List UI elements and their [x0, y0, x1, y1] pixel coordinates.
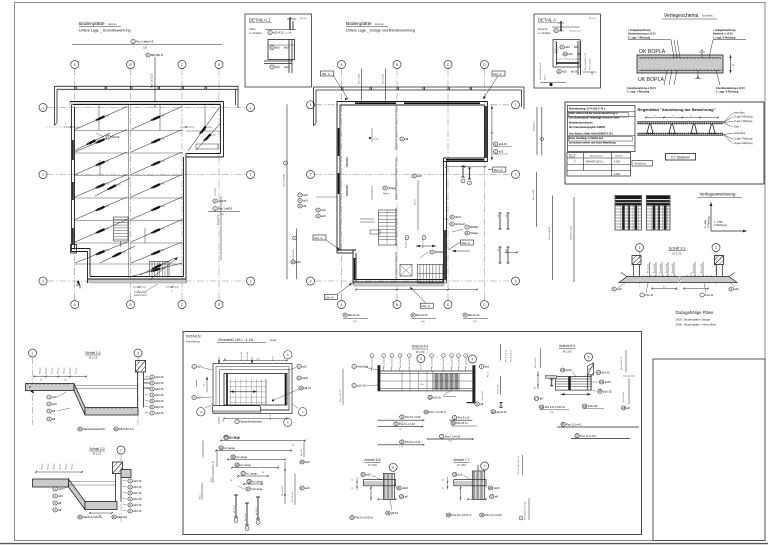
svg-text:Pos.6 ø10: Pos.6 ø10 — [293, 249, 295, 260]
Ansicht 4-4 circles — [417, 355, 425, 363]
Regeldetail schedule table — [567, 153, 631, 177]
svg-text:2ø10: 2ø10 — [302, 376, 308, 380]
detail A top element — [560, 21, 562, 31]
svg-text:untere Bew.: untere Bew. — [734, 132, 746, 135]
detail A corner hatch — [555, 41, 557, 42]
svg-text:ø8-15: ø8-15 — [571, 72, 578, 74]
svg-text:ø8-15 St.: ø8-15 St. — [255, 507, 258, 515]
detail A inner box — [553, 40, 580, 68]
svg-text:Vertiefung: Vertiefung — [186, 340, 200, 344]
Schnitt 1-1 lower slab — [85, 408, 138, 416]
svg-text:ø10: ø10 — [321, 208, 326, 212]
svg-text:ø10: ø10 — [562, 70, 567, 74]
Schnitt 3-3 left column hatched — [632, 256, 641, 265]
svg-text:Pos.8 L=4.30: Pos.8 L=4.30 — [405, 440, 421, 444]
svg-text:1: 1 — [250, 106, 252, 110]
svg-text:M 1:10: M 1:10 — [300, 18, 307, 20]
svg-text:ø10-15: ø10-15 — [133, 509, 142, 513]
left plan band leader label — [154, 57, 156, 108]
Schnitt 2-2 wall hatched — [113, 462, 123, 474]
svg-text:R188A: R188A — [470, 225, 478, 229]
svg-text:ø12/15: ø12/15 — [159, 116, 166, 118]
svg-text:Untere Lage _ Grundbewehrung: Untere Lage _ Grundbewehrung — [79, 29, 131, 33]
svg-text:ø12/15: ø12/15 — [159, 183, 166, 185]
svg-text:ø10-15: ø10-15 — [155, 387, 164, 391]
left plan stair mid-left — [114, 217, 129, 247]
Ansicht 7-7 top column stub — [477, 465, 479, 471]
middle plan top foundation band — [314, 86, 525, 88]
svg-text:1. Lage, X-Richtung: 1. Lage, X-Richtung — [716, 91, 739, 94]
svg-text:Pos.2 ø10/15: Pos.2 ø10/15 — [151, 73, 154, 88]
Ansicht 7-7 bottom dim — [468, 498, 486, 500]
svg-text:Pos.7 L=4.30: Pos.7 L=4.30 — [445, 434, 461, 438]
Schnitt 3-3 bottom labels — [612, 287, 622, 291]
svg-text:Pos.2 2ø10: Pos.2 2ø10 — [443, 357, 445, 368]
svg-text:4x: 4x — [99, 515, 101, 517]
svg-text:ø12: ø12 — [559, 29, 564, 33]
svg-text:Pos.5 L=4.30: Pos.5 L=4.30 — [405, 415, 421, 419]
svg-text:Randeinf. ø 10-15: Randeinf. ø 10-15 — [713, 33, 733, 36]
svg-text:2: 2 — [391, 355, 392, 357]
detail A.1 leader line — [265, 29, 296, 31]
svg-text:8ø10: 8ø10 — [284, 47, 290, 50]
Verlegeschema slab rebar ticks — [641, 58, 722, 71]
svg-text:B: B — [396, 303, 398, 307]
Regeldetail bar drawing top dimension — [646, 117, 718, 119]
svg-text:BSW-BT-LB-D-L: BSW-BT-LB-D-L — [586, 161, 604, 164]
svg-text:ø12/15: ø12/15 — [159, 250, 166, 252]
svg-text:ø10: ø10 — [275, 46, 280, 50]
Schnitt 2-2 step — [69, 479, 86, 510]
svg-text:6: 6 — [392, 466, 394, 470]
left plan right wing wall — [223, 102, 225, 158]
middle plan notch dimension — [446, 166, 485, 168]
middle plan left wall — [336, 102, 338, 254]
svg-text:Eckausb.: Eckausb. — [538, 28, 548, 31]
svg-text:ø10: ø10 — [458, 473, 463, 477]
Ansicht 4-4 hatch block — [434, 373, 459, 389]
svg-text:1.75: 1.75 — [399, 446, 403, 448]
svg-text:Sauberkeitsschicht: Sauberkeitsschicht — [83, 427, 105, 431]
svg-text:auf unteren unterer und obere: auf unteren unterer und obere Bewehrung — [569, 142, 616, 145]
Ansicht 4-4 beam band — [378, 371, 476, 391]
svg-text:Y-Richtung: Y-Richtung — [708, 216, 711, 228]
svg-text:3: 3 — [715, 246, 717, 250]
left plan interior wall vertical — [128, 105, 130, 278]
svg-text:ø10: ø10 — [617, 287, 622, 291]
svg-text:Pos.6 2ø12 L=2.6: Pos.6 2ø12 L=2.6 — [540, 62, 542, 80]
svg-text:BxL/Ax10: BxL/Ax10 — [416, 313, 428, 317]
svg-text:Pos.1 ø8/15: Pos.1 ø8/15 — [218, 207, 233, 211]
svg-text:3: 3 — [250, 279, 252, 283]
svg-text:Pos.11: Pos.11 — [705, 293, 713, 297]
svg-text:2006 : Bodenplatte –obere Bew.: 2006 : Bodenplatte –obere Bew. — [676, 323, 717, 327]
svg-text:ø8: ø8 — [506, 249, 508, 251]
svg-text:Betondeckung: CV=4 ⅅⅅ C=7: Betondeckung: CV=4 ⅅⅅ C=75 u — [569, 108, 606, 111]
svg-text:DETAIL A,1: DETAIL A,1 — [249, 18, 271, 23]
svg-text:Pos.14 L=4.50 St.: Pos.14 L=4.50 St. — [545, 405, 566, 409]
svg-text:ø10-15: ø10-15 — [357, 384, 366, 388]
Schnitt 1-1 axis circles — [29, 349, 37, 357]
Schnitt 3-3 rotated bar labels right group — [694, 262, 696, 277]
Schnitt 3-3 right column hatched — [715, 256, 724, 265]
svg-text:(unmaßst.): (unmaßst.) — [702, 15, 714, 18]
middle plan bottom axis labels — [343, 313, 360, 317]
svg-text:2ø10: 2ø10 — [566, 368, 572, 372]
svg-text:B: B — [396, 63, 398, 67]
left plan step nib — [71, 245, 77, 254]
svg-text:1.75: 1.75 — [448, 441, 452, 443]
svg-text:ø10: ø10 — [499, 150, 504, 154]
svg-text:Pos.4 ø10: Pos.4 ø10 — [383, 73, 385, 84]
svg-text:Untere Lage _ Zulage und Randb: Untere Lage _ Zulage und Randbewehrung — [346, 29, 415, 33]
Ansicht 4-4 right rotated label column — [500, 344, 502, 360]
svg-text:Pos.9 L=2.00 m: Pos.9 L=2.00 m — [355, 516, 373, 520]
axis circles middle plan top — [338, 61, 346, 69]
middle plan right wall upper — [487, 102, 489, 162]
svg-text:4.205: 4.205 — [614, 161, 621, 164]
svg-text:ø8-15 St.: ø8-15 St. — [496, 410, 507, 414]
svg-text:Pos.8 ø10-15: Pos.8 ø10-15 — [511, 349, 513, 362]
Schnitt 2-2 right label stack — [128, 479, 142, 483]
svg-text:M 1:10: M 1:10 — [589, 18, 596, 20]
Ansicht 4-4 right small stirrup — [500, 403, 502, 408]
svg-text:Pos.9 ø10-15: Pos.9 ø10-15 — [549, 226, 551, 240]
svg-text:B: B — [129, 63, 131, 67]
svg-text:Pos.13 L=3.8: Pos.13 L=3.8 — [580, 434, 596, 438]
Ansicht 5-5 body — [556, 377, 592, 391]
svg-text:ø10: ø10 — [58, 494, 63, 498]
svg-text:Pos.4 ø10: Pos.4 ø10 — [247, 351, 249, 361]
left plan top wall — [70, 101, 224, 103]
Ansicht 7-7 right labels — [488, 486, 500, 490]
middle plan left label stack — [298, 193, 308, 197]
Ansicht 4-4 right boxed label — [451, 421, 469, 425]
svg-text:M 1:50: M 1:50 — [563, 349, 572, 353]
svg-text:Pos.4 2ø12 L=3.1: Pos.4 2ø12 L=3.1 — [585, 52, 587, 70]
detail A bottom label — [557, 70, 567, 74]
svg-text:bzw. Stütck z.Stelle Höhe BS: bzw. Stütck z.Stelle Höhe BSW-BT-L-B-L — [569, 132, 614, 135]
svg-text:2: 2 — [451, 355, 452, 357]
Schnitt 1-1 step — [74, 384, 85, 416]
svg-text:Ansicht 6-6: Ansicht 6-6 — [365, 458, 381, 462]
svg-text:Pos.10 L=2.00 m: Pos.10 L=2.00 m — [452, 513, 472, 517]
svg-text:Pos.14 ø10: Pos.14 ø10 — [282, 485, 284, 496]
svg-text:ø12/15: ø12/15 — [103, 183, 110, 185]
svg-text:Det. A: Det. A — [462, 241, 470, 245]
bottom paper edge — [0, 543, 768, 545]
svg-text:ø10-15: ø10-15 — [601, 371, 610, 375]
detail A.1 wall corner — [268, 40, 295, 60]
svg-text:im Länge: im Länge — [229, 436, 240, 440]
svg-text:ø12/15: ø12/15 — [160, 264, 167, 266]
svg-text:ø10: ø10 — [305, 486, 310, 490]
svg-text:Schnitt 2-2: Schnitt 2-2 — [89, 447, 104, 451]
svg-text:Stützbew. ø10: Stützbew. ø10 — [570, 225, 573, 240]
svg-text:ø8: ø8 — [498, 249, 500, 251]
svg-text:BxL/Ax10: BxL/Ax10 — [348, 313, 360, 317]
svg-text:Anschluß: Anschluß — [357, 365, 368, 369]
middle plan notch wall — [444, 161, 488, 163]
svg-text:Ansicht 4-4: Ansicht 4-4 — [412, 345, 428, 349]
Ansicht 7-7 horizontal member — [454, 480, 486, 486]
svg-text:Det. A: Det. A — [314, 236, 322, 240]
svg-text:5: 5 — [588, 355, 590, 359]
svg-text:ø10-15: ø10-15 — [155, 405, 164, 409]
Schnitt 3-3 tick rows — [642, 275, 644, 276]
left plan inner labels — [106, 135, 120, 139]
svg-text:Schnitt 3-3: Schnitt 3-3 — [669, 247, 685, 251]
svg-text:ø8-15: ø8-15 — [391, 511, 398, 515]
middle plan top wall rebar bars — [355, 102, 396, 104]
svg-text:R188A: R188A — [435, 250, 443, 254]
Regeldetail Verteilung tag — [632, 161, 653, 167]
svg-text:stat.pos.: stat.pos. — [375, 23, 384, 26]
svg-text:ø10-15: ø10-15 — [155, 375, 164, 379]
Detail B pit plan — [213, 364, 292, 414]
Schnitt 3-3 slab — [619, 277, 737, 283]
Regeldetail bar drawing — [637, 122, 723, 135]
svg-text:Pos.2 2ø10: Pos.2 2ø10 — [458, 357, 460, 368]
middle plan lower right wall — [443, 158, 445, 285]
Verlegeschema top-right leader — [709, 40, 713, 58]
svg-text:ø10/15: ø10/15 — [111, 135, 120, 139]
Ansicht 4-4 far-left rotated column — [342, 369, 344, 405]
svg-text:Regeldetail "Anordnung der: Regeldetail "Anordnung der Bewehrung" — [638, 107, 716, 112]
svg-text:Pos.9 L=2: Pos.9 L=2 — [458, 416, 470, 420]
svg-text:150: 150 — [143, 47, 148, 50]
Ansicht 5-5 label above — [561, 368, 573, 372]
left plan bottom wall with screed — [89, 279, 186, 283]
svg-text:0,7 Stück/m²: 0,7 Stück/m² — [671, 155, 691, 159]
svg-text:Sauberkeitsschicht: Sauberkeitsschicht — [240, 420, 262, 424]
svg-text:2.Lage Y-Richtung: 2.Lage Y-Richtung — [734, 138, 753, 141]
svg-text:ø10-15: ø10-15 — [133, 497, 142, 501]
svg-text:ø12/15: ø12/15 — [94, 140, 101, 142]
Detail B pit leader arrows to circles — [205, 404, 213, 408]
Ansicht 4-4 left labels — [352, 365, 369, 369]
svg-text:ø10: ø10 — [485, 365, 490, 369]
svg-text:ø10-15: ø10-15 — [603, 389, 612, 393]
Regeldetail outer box — [565, 102, 764, 184]
svg-text:1.Lage Y-Richtung: 1.Lage Y-Richtung — [734, 120, 753, 123]
axis lines middle plan horizontal — [315, 104, 511, 106]
svg-text:L=4.30: L=4.30 — [285, 33, 293, 35]
axis lines left plan horizontal — [47, 107, 247, 109]
left plan interior span lines — [74, 130, 128, 132]
svg-text:4ø12: 4ø12 — [455, 215, 461, 219]
Detail B upper-right bar lines — [557, 426, 639, 428]
left plan rebar diagonals — [74, 107, 220, 277]
svg-text:4: 4 — [472, 357, 474, 361]
svg-text:2: 2 — [443, 355, 444, 357]
Ansicht 6-6 vertical hatched member — [384, 473, 395, 499]
svg-text:Pos.13 ø10: Pos.13 ø10 — [535, 357, 537, 368]
svg-text:2: 2 — [250, 173, 252, 177]
middle plan band top leaders — [361, 69, 363, 104]
Regeldetail panel rules — [568, 111, 636, 113]
Detail B pit axis circles — [197, 408, 205, 416]
svg-text:DETAIL A: DETAIL A — [538, 18, 556, 23]
svg-text:2002 : Bodenplatte Garage: 2002 : Bodenplatte Garage — [676, 318, 711, 322]
svg-text:ø10: ø10 — [321, 214, 326, 218]
svg-text:ø10: ø10 — [303, 193, 308, 197]
Verlegeschema thickness dimension — [730, 55, 732, 73]
detail A.1 box — [245, 14, 312, 87]
svg-text:3: 3 — [137, 351, 139, 355]
svg-text:UK BOPLA: UK BOPLA — [638, 77, 664, 83]
svg-text:Randeinfassung ø 10-15: Randeinfassung ø 10-15 — [628, 33, 656, 36]
axis circles left plan sides — [39, 104, 47, 112]
svg-text:2ø10: 2ø10 — [494, 486, 500, 490]
Schnitt 1-1 right side ledger lines — [144, 378, 153, 380]
Ansicht 4-4 right short bar line — [449, 419, 472, 421]
between plans second line — [295, 228, 297, 279]
svg-text:ø10: ø10 — [303, 199, 308, 203]
Schnitt 1-1 left label stack — [47, 395, 57, 399]
svg-text:ø10: ø10 — [568, 52, 573, 56]
middle plan step wall — [337, 252, 353, 254]
Schnitt 3-3 axis circles — [636, 244, 644, 252]
svg-text:10: 10 — [294, 238, 296, 240]
svg-text:Randbew.: Randbew. — [534, 121, 536, 131]
svg-text:siehe Pos.8: siehe Pos.8 — [134, 294, 147, 297]
middle plan Det.A boxes with leaders — [321, 71, 334, 76]
svg-text:2: 2 — [515, 173, 517, 177]
svg-text:M 1:50: M 1:50 — [368, 463, 377, 467]
middle plan right margin small symbols — [499, 213, 501, 229]
svg-text:4ø12 L=2.1: 4ø12 L=2.1 — [570, 31, 582, 33]
svg-text:1. Lage: 1. Lage — [714, 220, 723, 224]
Schnitt 1-1 slab top rebar ticks — [27, 384, 29, 386]
svg-text:Pos.5: Pos.5 — [273, 355, 275, 361]
svg-text:Pos.2 2ø10: Pos.2 2ø10 — [392, 357, 394, 368]
svg-text:1.Lage X-Richtung: 1.Lage X-Richtung — [734, 142, 754, 145]
svg-text:ø8-15: ø8-15 — [304, 386, 311, 390]
Ansicht 6-6 bottom dim — [378, 498, 395, 500]
svg-text:ø10: ø10 — [734, 287, 739, 291]
svg-text:Pos.15 ø10: Pos.15 ø10 — [292, 491, 294, 502]
left plan right mid leader — [220, 196, 222, 260]
Ansicht 4-4 right end bar with foot — [472, 365, 475, 402]
svg-text:stat.pos.: stat.pos. — [108, 23, 117, 26]
Ansicht 5-5 circle — [585, 353, 593, 361]
Ansicht 5-5 inner dark bar — [568, 377, 571, 391]
middle plan stair middle — [379, 210, 397, 245]
between plans dimension line — [286, 104, 288, 279]
svg-text:Pos.12 L=4.2: Pos.12 L=4.2 — [566, 422, 582, 426]
Ansicht 7-7 vertical dim — [460, 486, 462, 501]
svg-text:Pos.1 ø10-15: Pos.1 ø10-15 — [340, 389, 342, 402]
svg-text:ø10-15: ø10-15 — [133, 503, 142, 507]
svg-text:7: 7 — [484, 464, 486, 468]
middle plan small pit bottom — [400, 265, 412, 277]
svg-text:Pos.6 ø10: Pos.6 ø10 — [693, 263, 695, 273]
Ansicht 5-5 bottom dim arrows — [561, 393, 592, 395]
svg-text:Bewe. Bestlänge u.Tabelle bzw.: Bewe. Bestlänge u.Tabelle bzw. — [569, 137, 604, 140]
svg-text:M 1:25: M 1:25 — [672, 251, 682, 255]
Verlegeschema bottom-right leader — [716, 70, 720, 85]
svg-text:Det. A: Det. A — [494, 168, 502, 172]
Ansicht 4-4 inner column lines — [401, 371, 403, 391]
svg-text:PE-Folie: PE-Folie — [117, 515, 128, 519]
middle plan right wall dimension line — [491, 106, 493, 161]
axis circles middle plan bottom — [338, 301, 346, 309]
Schnitt 1-1 right wall hatched — [136, 361, 146, 373]
svg-text:Verbund: Verbund — [455, 222, 465, 226]
Ansicht 5-5 left T symbol — [551, 379, 553, 386]
svg-text:Det. A: Det. A — [493, 72, 501, 76]
svg-text:Pos.1 ø8/a=15: Pos.1 ø8/a=15 — [136, 40, 154, 44]
svg-text:im Länge: im Länge — [236, 455, 247, 459]
svg-text:BxL/Ax10: BxL/Ax10 — [468, 313, 480, 317]
svg-text:ø10: ø10 — [52, 402, 57, 406]
svg-text:PE-Folie 0.3: PE-Folie 0.3 — [119, 427, 134, 431]
svg-text:Pos.2 ø10: Pos.2 ø10 — [648, 263, 650, 273]
svg-text:Gitter: Gitter — [734, 126, 740, 129]
Detail B pit inner dim arrow — [230, 391, 257, 393]
svg-text:Die Unterstützungsgitter D4/D6: Die Unterstützungsgitter D4/D6d — [569, 126, 605, 129]
svg-text:ø8-15 St.: ø8-15 St. — [233, 505, 236, 513]
svg-text:2: 2 — [383, 355, 384, 357]
svg-text:Verlegeanweisung: Verlegeanweisung — [700, 192, 736, 197]
svg-text:ø10/15: ø10/15 — [218, 199, 227, 203]
svg-text:ø10-L45: ø10-L45 — [588, 404, 598, 408]
svg-text:im Länge: im Länge — [224, 446, 235, 450]
middle plan lower-left wall — [352, 250, 354, 285]
svg-text:Pos.7: Pos.7 — [545, 74, 547, 80]
svg-text:2ø10: 2ø10 — [284, 66, 290, 69]
Schnitt 3-3 rotated bar labels left group — [649, 262, 651, 277]
svg-text:Verteilung: Verteilung — [634, 162, 646, 166]
svg-text:1: 1 — [515, 103, 517, 107]
svg-text:B: B — [412, 313, 414, 317]
middle plan bottom wall — [354, 282, 444, 286]
svg-text:ø10: ø10 — [52, 395, 57, 399]
middle plan lower left labels — [316, 208, 326, 212]
Ansicht 6-6 right labels — [397, 486, 409, 490]
middle plan interior wall — [395, 106, 397, 150]
svg-text:Pos.3 ø10: Pos.3 ø10 — [241, 351, 243, 361]
svg-text:B: B — [129, 303, 131, 307]
left plan stair bottom with arrow — [150, 257, 179, 280]
svg-text:Pos.7 ø10-15: Pos.7 ø10-15 — [506, 349, 508, 362]
Ansicht 5-5 right bar — [587, 375, 589, 390]
detail A right bar — [577, 41, 579, 75]
svg-text:im Länge: im Länge — [240, 463, 251, 467]
Verlegeschema bottom-left leaders — [664, 70, 667, 85]
svg-text:2. Lage, Y-Richtung: 2. Lage, Y-Richtung — [627, 91, 650, 94]
svg-text:ø12/15: ø12/15 — [120, 252, 127, 254]
svg-text:ø10-15: ø10-15 — [155, 399, 164, 403]
Ansicht 6-6 vertical dim — [370, 486, 372, 501]
svg-text:ø10: ø10 — [275, 65, 280, 69]
Ansicht 6-6 horizontal member — [364, 480, 396, 486]
middle plan upper small dot label — [369, 137, 371, 139]
svg-text:ø10-15: ø10-15 — [133, 485, 142, 489]
svg-text:ø12/15: ø12/15 — [206, 127, 213, 129]
svg-text:Pos.15 ø10-15: Pos.15 ø10-15 — [621, 356, 623, 370]
svg-text:ø10: ø10 — [302, 365, 307, 369]
Schnitt 3-3 slab break — [679, 276, 682, 284]
axis lines left plan vertical — [74, 68, 76, 301]
svg-text:B: B — [344, 313, 346, 317]
svg-text:ø10-15: ø10-15 — [155, 381, 164, 385]
axis lines middle plan vertical — [341, 68, 343, 301]
svg-text:3: 3 — [515, 279, 517, 283]
middle plan top wall — [337, 101, 488, 103]
detail A.1 labels — [270, 46, 280, 50]
